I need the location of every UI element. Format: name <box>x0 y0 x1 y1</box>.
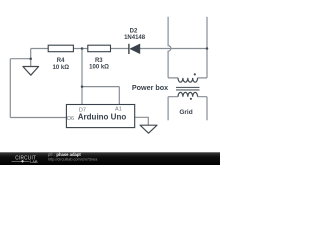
wire A1 branch horizontal <box>82 86 119 88</box>
wire to Arduino D6 <box>10 117 66 119</box>
wire grid right vertical <box>206 97 208 121</box>
logo underline and diamond <box>12 160 30 162</box>
resistor R4 <box>48 45 73 52</box>
svg-text:Arduino Uno: Arduino Uno <box>78 112 127 121</box>
resistor R3 <box>88 45 111 52</box>
junction node A1 branch <box>81 85 84 88</box>
junction node left ground <box>29 57 32 60</box>
IC U1 Arduino Uno <box>66 105 134 128</box>
svg-text:LAB: LAB <box>30 160 38 164</box>
wire to left rail <box>10 58 30 60</box>
diode D2 <box>129 44 140 54</box>
wire main horizontal row <box>31 48 207 50</box>
junction node R4-R3 <box>81 47 84 50</box>
wire left rail vertical <box>9 59 11 118</box>
svg-text:R4: R4 <box>57 58 65 64</box>
ground GND2 <box>140 125 157 133</box>
wire D7 vertical <box>81 49 83 105</box>
transformer T1 secondary coil <box>178 92 198 96</box>
ground GND1 <box>23 67 39 76</box>
svg-text:D2: D2 <box>130 29 138 35</box>
transformer T1 core lines <box>176 87 200 90</box>
junction node transformer right <box>206 47 209 50</box>
transformer T1 secondary polarity dot <box>190 98 192 100</box>
wire transformer right vertical <box>206 17 208 78</box>
transformer T1 secondary stubs <box>168 96 207 98</box>
svg-text:D6: D6 <box>67 116 74 122</box>
svg-text:http://circuitlab.com/cm73nea: http://circuitlab.com/cm73nea <box>48 157 98 161</box>
svg-text:pfr : phase adapt: pfr : phase adapt <box>48 152 81 157</box>
transformer T1 primary stubs <box>168 77 207 79</box>
wire transformer left vertical with hop <box>168 17 171 78</box>
svg-text:100 kΩ: 100 kΩ <box>89 65 109 71</box>
footer bar <box>0 152 220 165</box>
wire Arduino GND out <box>135 117 149 125</box>
svg-text:Grid: Grid <box>179 109 192 116</box>
transformer T1 primary coil <box>178 78 198 82</box>
wire left drop from R4 <box>30 49 32 59</box>
wire A1 vertical <box>118 87 120 105</box>
svg-text:1N4148: 1N4148 <box>124 35 146 41</box>
svg-text:Power box: Power box <box>132 83 168 92</box>
transformer T1 primary polarity dot <box>194 73 196 75</box>
wire grid left vertical <box>167 97 169 121</box>
svg-text:R3: R3 <box>95 58 103 64</box>
wire ground stub left <box>30 59 32 67</box>
svg-text:10 kΩ: 10 kΩ <box>53 65 70 71</box>
